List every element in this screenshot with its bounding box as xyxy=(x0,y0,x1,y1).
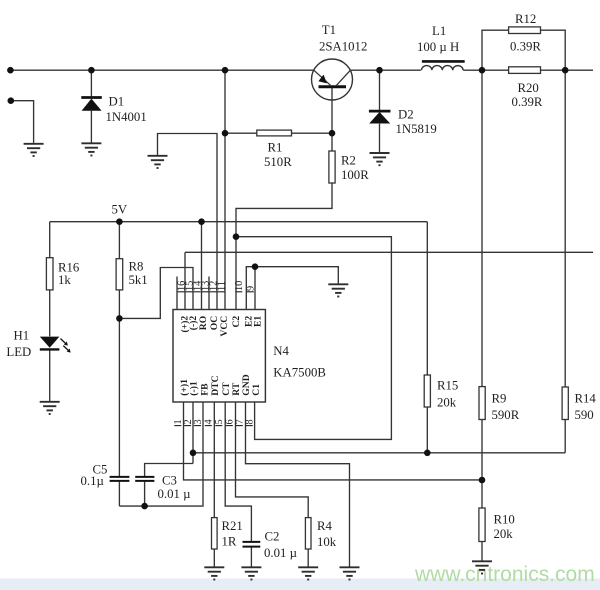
svg-text:1N4001: 1N4001 xyxy=(106,110,147,124)
transistor T1 xyxy=(312,59,353,100)
svg-text:1k: 1k xyxy=(58,273,71,287)
resistor R4 xyxy=(305,518,311,549)
node D1 tap xyxy=(88,67,95,74)
pin 16 number xyxy=(176,281,187,292)
wire R10 bottom to ground xyxy=(481,542,483,561)
pin 1 number xyxy=(173,419,184,425)
svg-text:5: 5 xyxy=(214,419,225,424)
resistor R12 xyxy=(509,27,541,34)
ground emitters xyxy=(328,284,348,296)
pin 9 number xyxy=(246,286,257,292)
pin 7 number xyxy=(235,419,246,425)
svg-text:100R: 100R xyxy=(341,168,369,182)
svg-text:8: 8 xyxy=(245,419,256,424)
wire R14 column from rail xyxy=(564,70,566,387)
svg-text:100 µ H: 100 µ H xyxy=(417,40,459,54)
ground input xyxy=(24,144,44,156)
wire pin9 jog xyxy=(246,267,255,310)
wire pin12 to left ground xyxy=(158,134,218,310)
svg-text:R21: R21 xyxy=(222,519,243,533)
wire pin13 stub xyxy=(208,277,210,310)
svg-text:KA7500B: KA7500B xyxy=(273,366,326,380)
wire R10 top lead xyxy=(481,480,483,508)
svg-text:R2: R2 xyxy=(341,154,356,168)
node L1 R12 R20 left xyxy=(479,67,486,74)
wire long output line xyxy=(185,251,593,253)
pin 10 number xyxy=(234,281,245,292)
resistor R10 xyxy=(479,508,485,542)
svg-text:4: 4 xyxy=(204,419,215,424)
wire R1 left lead xyxy=(225,132,257,134)
node input top xyxy=(7,67,14,74)
wire D1 branch upper xyxy=(90,70,92,96)
svg-text:R8: R8 xyxy=(129,260,144,274)
wire R8 bottom to C5 vertical xyxy=(118,290,120,477)
wire R9 bottom to node xyxy=(481,420,483,481)
svg-text:R14: R14 xyxy=(575,392,597,406)
wire top rail far right segment xyxy=(463,69,593,71)
wire feedback loop big box xyxy=(236,237,391,440)
ground LED xyxy=(40,402,60,414)
resistor R2 xyxy=(329,151,335,183)
wire R16 to LED xyxy=(49,290,51,336)
pin 4 number xyxy=(204,419,215,425)
svg-text:RO: RO xyxy=(198,316,209,330)
pin 6 number xyxy=(225,419,236,425)
wire pin15 to long line xyxy=(184,252,186,309)
node R15 bottom xyxy=(424,450,431,457)
wire R14 bottom to feedback line xyxy=(564,420,566,453)
svg-text:3: 3 xyxy=(193,419,204,424)
wire C5 bottom xyxy=(118,481,120,506)
resistor R21 xyxy=(212,518,218,549)
svg-text:590: 590 xyxy=(575,408,594,422)
svg-text:590R: 590R xyxy=(492,408,520,422)
node feedback box top xyxy=(233,233,240,240)
capacitor C3 xyxy=(135,477,154,481)
svg-text:R12: R12 xyxy=(515,12,536,26)
wire LED cathode to ground xyxy=(49,349,51,401)
svg-text:R1: R1 xyxy=(268,141,283,155)
svg-text:1N5819: 1N5819 xyxy=(396,122,437,136)
svg-text:D2: D2 xyxy=(398,108,414,122)
wire 5V rail xyxy=(50,221,428,223)
ground R21 xyxy=(204,567,224,579)
wire pin5 to C2 xyxy=(225,402,251,542)
wire pin1 to divider node xyxy=(184,402,483,480)
wire input lower stub to ground xyxy=(11,101,34,143)
wire R21 to ground xyxy=(213,549,215,567)
pin 5 number xyxy=(214,419,225,425)
wire pin2 to C3 top xyxy=(145,464,193,477)
wire rail to R1 and pin11 vertical xyxy=(224,70,226,309)
svg-text:N4: N4 xyxy=(273,344,289,358)
capacitor C5 xyxy=(110,477,130,481)
node R12 R20 right xyxy=(562,67,569,74)
wire D2 branch upper xyxy=(379,70,381,110)
ground D1 xyxy=(81,143,101,155)
svg-text:C3: C3 xyxy=(162,474,177,488)
wire R12 parallel loop xyxy=(482,30,509,70)
wire R16 top lead xyxy=(49,222,51,258)
ground R4 xyxy=(298,567,318,579)
node R8 bottom junction xyxy=(116,315,123,322)
svg-text:T1: T1 xyxy=(322,23,336,37)
node input lower xyxy=(8,97,15,104)
node 5V R8 tap xyxy=(116,218,123,225)
svg-text:0.01 µ: 0.01 µ xyxy=(158,487,191,501)
ground near T1 xyxy=(148,156,168,168)
wire emitters to ground xyxy=(255,267,338,284)
svg-text:D1: D1 xyxy=(109,95,125,109)
svg-text:R9: R9 xyxy=(492,392,507,406)
svg-text:R20: R20 xyxy=(518,81,539,95)
wire pin2 down through feedback line xyxy=(192,402,194,464)
ground pin7 xyxy=(340,567,360,579)
svg-text:R10: R10 xyxy=(494,513,515,527)
node divider R9 R10 xyxy=(479,477,486,484)
svg-text:0.1µ: 0.1µ xyxy=(81,474,104,488)
wire T1 base down to R2 xyxy=(331,87,333,151)
svg-text:9: 9 xyxy=(246,286,257,291)
diode D2 xyxy=(369,111,391,123)
wire R12 right side loop xyxy=(541,30,566,70)
pin 12 number xyxy=(208,281,219,292)
svg-text:11: 11 xyxy=(216,281,227,291)
node R1 left junction xyxy=(222,130,229,137)
svg-text:R15: R15 xyxy=(437,379,458,393)
wire R2 bottom to pin10 route xyxy=(236,183,332,310)
resistor R14 xyxy=(562,387,568,420)
node T1 base R1 R2 junction xyxy=(329,130,336,137)
svg-text:0.39R: 0.39R xyxy=(512,95,543,109)
wire feedback sense line xyxy=(193,452,565,454)
svg-text:C2: C2 xyxy=(265,530,280,544)
node R1 feed on rail xyxy=(222,67,229,74)
svg-text:R4: R4 xyxy=(317,519,333,533)
svg-text:VCC: VCC xyxy=(219,316,230,337)
svg-text:(-)1: (-)1 xyxy=(189,381,200,396)
svg-text:0.39R: 0.39R xyxy=(510,40,541,54)
wire pin10 emitter lead xyxy=(254,267,256,310)
ground D2 xyxy=(370,153,390,165)
pin 11 number xyxy=(216,281,227,292)
resistor R16 xyxy=(46,258,53,290)
svg-text:20k: 20k xyxy=(494,527,514,541)
node D2 tap xyxy=(376,67,383,74)
ground R10 xyxy=(472,561,492,573)
svg-text:www.cntronics.com: www.cntronics.com xyxy=(414,563,595,586)
ground C2 xyxy=(241,567,261,579)
svg-text:H1: H1 xyxy=(14,329,30,343)
wire pin6 to R4 xyxy=(236,402,309,518)
resistor R9 xyxy=(479,387,485,420)
svg-text:510R: 510R xyxy=(264,155,292,169)
wire pin3 to cap bottoms xyxy=(119,402,203,506)
svg-text:DTC: DTC xyxy=(210,375,221,395)
op-amp U1 IC N4 KA7500B box xyxy=(173,310,265,403)
wire C2 to ground xyxy=(250,547,252,567)
wire D1 branch lower xyxy=(90,111,92,143)
wire pin14 to 5V xyxy=(201,222,203,310)
wire top rail right segment xyxy=(350,69,421,71)
wire R4 to ground xyxy=(307,549,309,567)
svg-text:20k: 20k xyxy=(437,396,457,410)
svg-text:LED: LED xyxy=(6,345,31,359)
wire D2 branch lower xyxy=(379,124,381,153)
svg-text:FB: FB xyxy=(200,383,211,396)
LED H1 xyxy=(40,337,71,353)
resistor R8 xyxy=(116,259,123,290)
wire R9 column from rail xyxy=(481,70,483,386)
pin 3 number xyxy=(193,419,204,425)
svg-text:C1: C1 xyxy=(251,384,262,396)
capacitor C2 xyxy=(243,542,261,547)
svg-text:5V: 5V xyxy=(112,203,128,217)
svg-text:0.01 µ: 0.01 µ xyxy=(264,546,297,560)
pin 13 number xyxy=(200,281,211,292)
pin 2 number xyxy=(183,419,194,425)
svg-text:10: 10 xyxy=(234,281,245,291)
wire pin16 stub xyxy=(176,277,178,310)
wire C3 bottom xyxy=(144,481,146,506)
svg-text:10k: 10k xyxy=(317,535,337,549)
node C5 C3 bottoms xyxy=(141,503,148,510)
pin 15 number xyxy=(184,281,195,292)
svg-text:E1: E1 xyxy=(252,316,263,327)
diode D1 xyxy=(81,98,102,111)
node pin2 feedback xyxy=(190,450,197,457)
bottom tint strip xyxy=(0,579,600,590)
wire R8 top lead xyxy=(118,222,120,259)
svg-text:2SA1012: 2SA1012 xyxy=(319,40,367,54)
wire pin4 to R21 xyxy=(213,402,215,518)
pin 14 number xyxy=(192,281,203,292)
wire R15 bottom xyxy=(426,407,428,453)
wire pin7 to ground xyxy=(246,402,350,567)
wire R15 column xyxy=(426,222,428,375)
node emitters junction xyxy=(252,263,259,270)
resistor R20 xyxy=(509,67,541,74)
wire R8 node to pin15 route xyxy=(119,268,193,319)
svg-text:C2: C2 xyxy=(231,316,242,328)
node 5V pin14 tap xyxy=(198,218,205,225)
svg-text:1R: 1R xyxy=(222,535,237,549)
pin 8 number xyxy=(245,419,256,425)
wire R1 right lead xyxy=(292,132,333,134)
resistor R15 xyxy=(424,375,430,407)
wire top rail left segment xyxy=(10,69,313,71)
svg-text:L1: L1 xyxy=(432,24,446,38)
resistor R1 xyxy=(257,130,292,136)
svg-text:5k1: 5k1 xyxy=(129,273,148,287)
inductor L1 xyxy=(422,61,465,70)
